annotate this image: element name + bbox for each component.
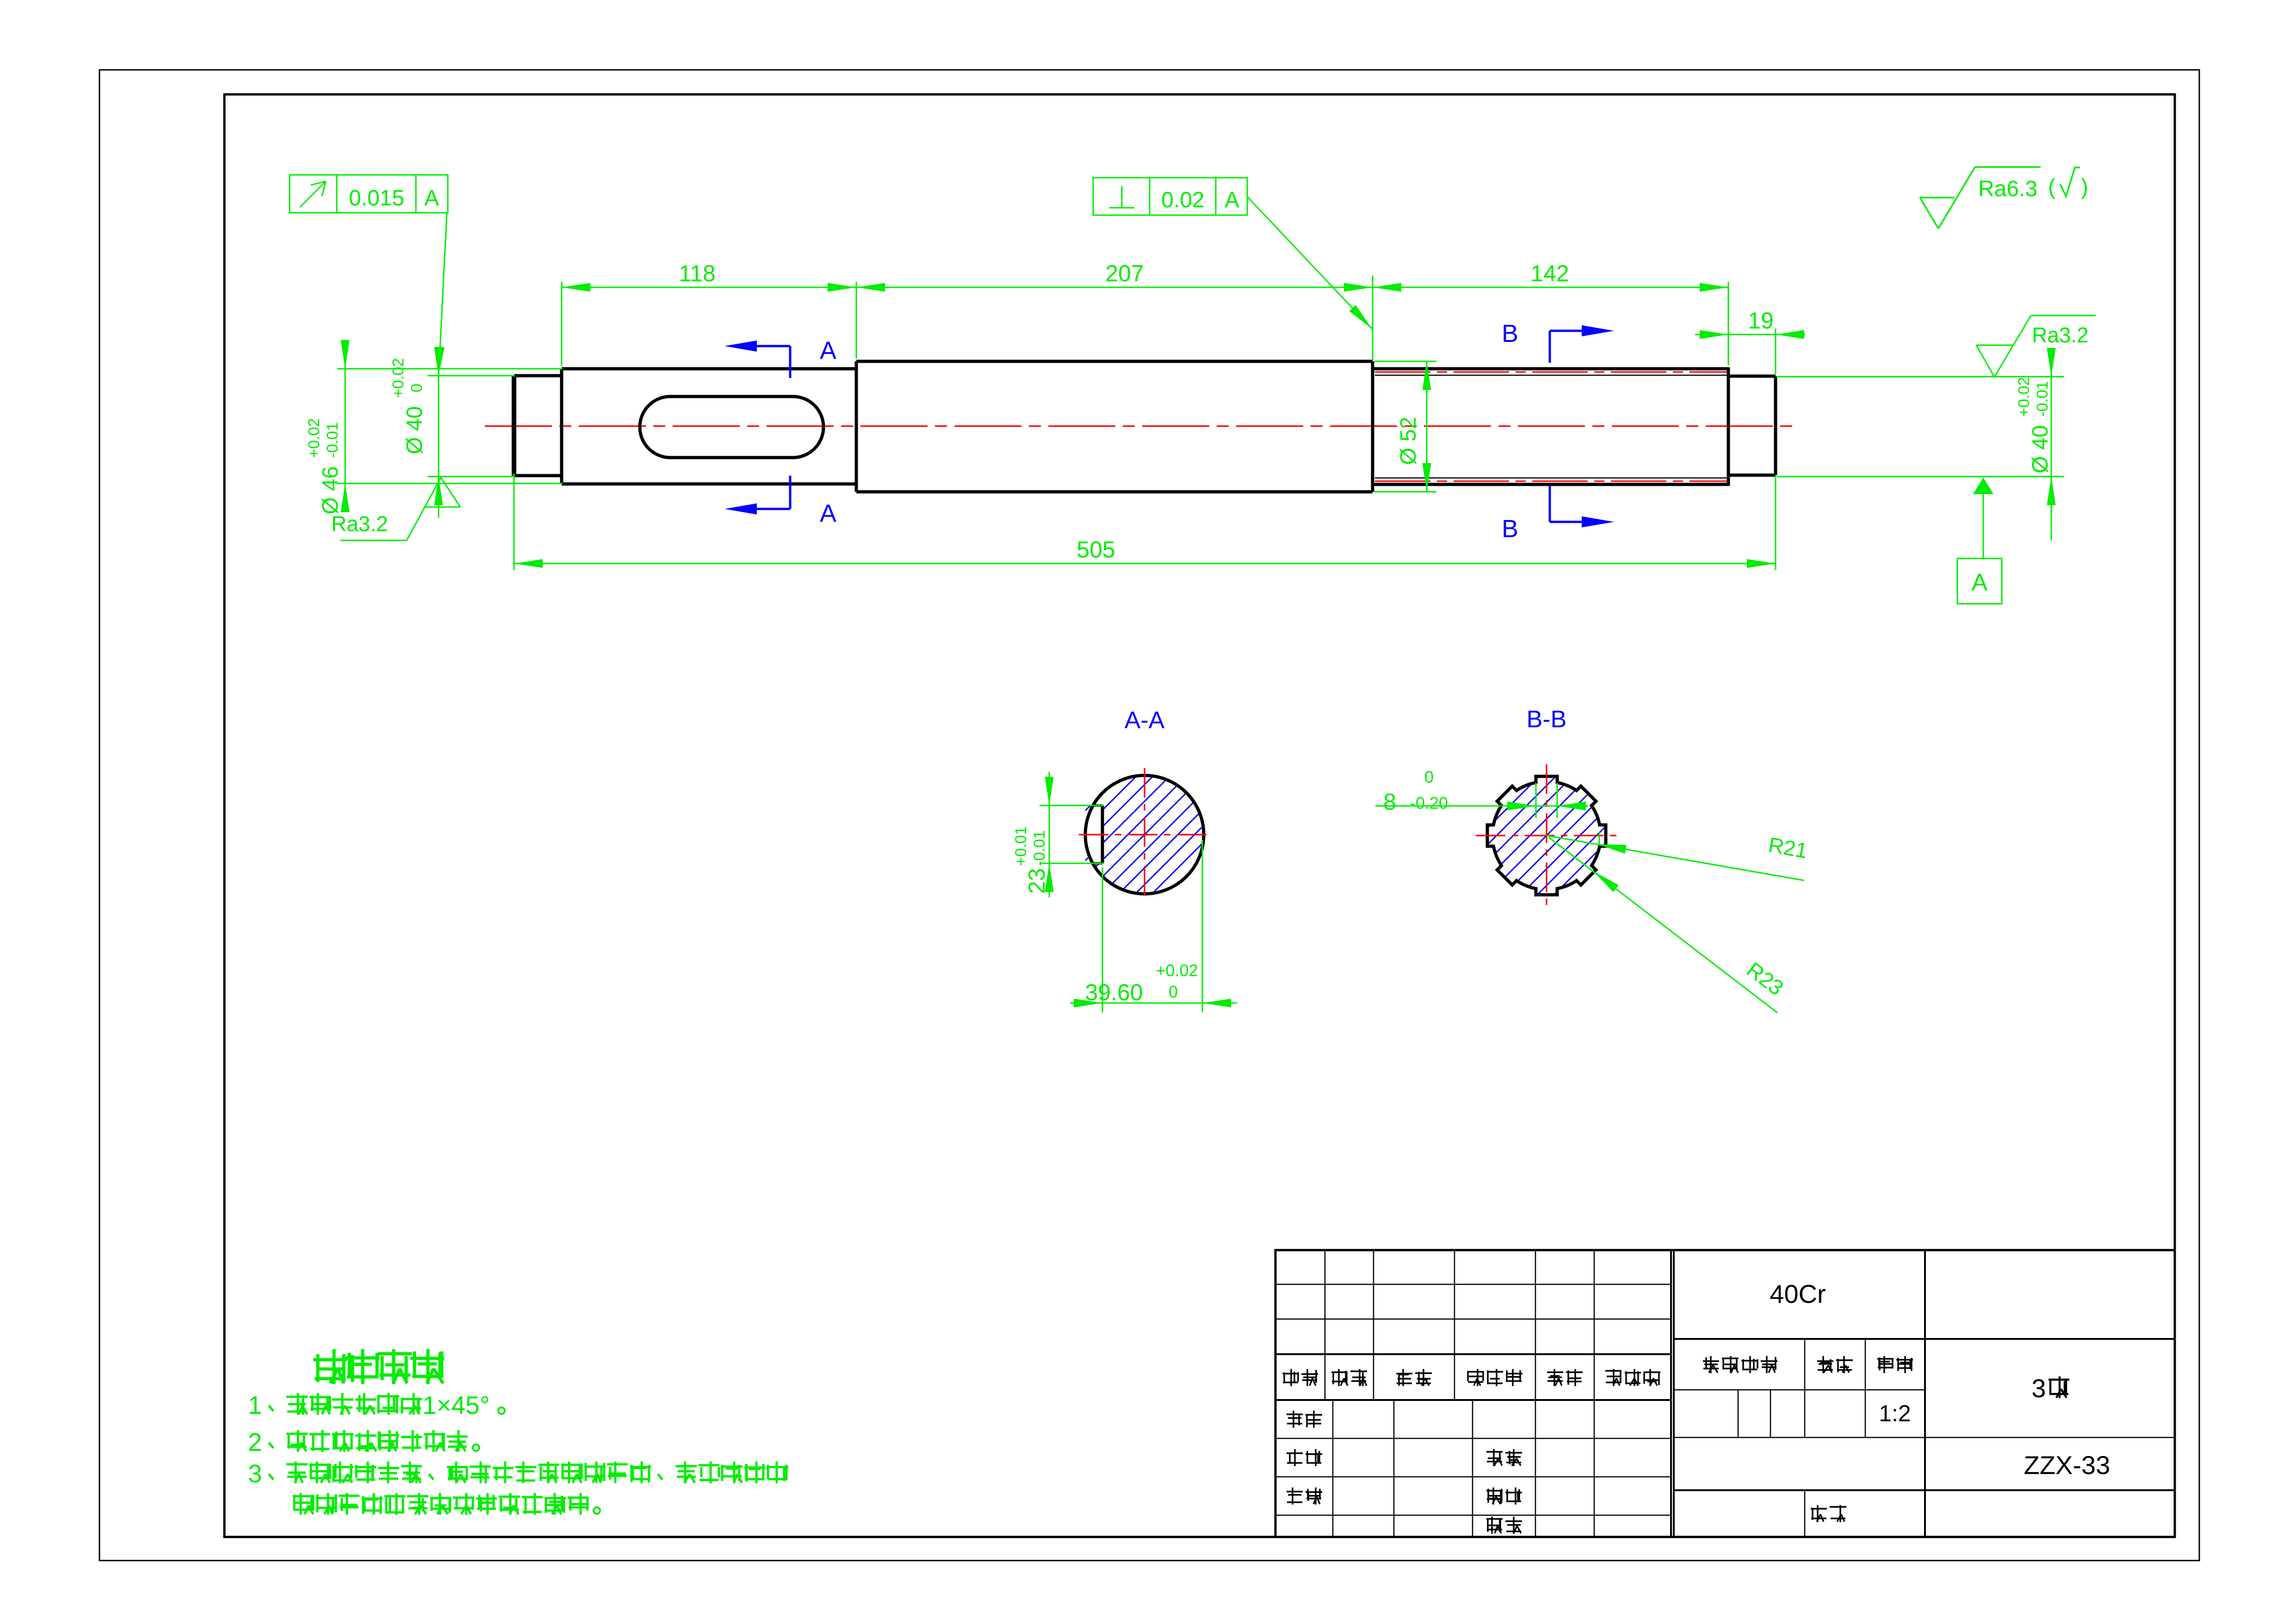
title block label 更改号: [1467, 1369, 1484, 1386]
svg-text:B-B: B-B: [1527, 706, 1567, 733]
radius leader R23: [1549, 837, 1788, 1013]
title block label 标记: [1282, 1369, 1299, 1386]
svg-text:Ø 46: Ø 46: [318, 466, 343, 514]
section mark A top: [724, 337, 836, 378]
feature control frame circular runout 0.015 A: [290, 175, 448, 213]
svg-text:23: 23: [1024, 868, 1050, 894]
svg-text:+0.02: +0.02: [390, 358, 407, 398]
svg-text:0.015: 0.015: [349, 186, 404, 211]
svg-text:A: A: [820, 337, 836, 365]
dimension 8 0/-0.20 (spline key width): [1375, 768, 1588, 818]
shaft Ø46 keyway section (118 long): [562, 369, 856, 484]
svg-text:0.02: 0.02: [1161, 188, 1204, 212]
svg-text:207: 207: [1105, 260, 1144, 286]
extension lines 505: [514, 474, 515, 570]
shaft left journal Ø40 (19 long): [514, 376, 562, 476]
svg-text:-0.20: -0.20: [1410, 793, 1448, 812]
svg-text:B: B: [1502, 515, 1518, 543]
section A-A crosshair centerlines: [1079, 768, 1210, 902]
section A-A circle outline: [1085, 775, 1204, 894]
leader from perpendicularity frame: [1247, 197, 1372, 329]
title block label 阶段标记: [1703, 1356, 1719, 1373]
svg-text:A: A: [820, 500, 836, 527]
dimension Ø46 +0.02/-0.01: [305, 340, 563, 514]
section B-B spline outline: [1487, 776, 1606, 895]
svg-text:1:2: 1:2: [1879, 1400, 1911, 1426]
svg-text:505: 505: [1077, 537, 1115, 563]
surface finish Ra3.2 left: [331, 477, 460, 540]
title block part name 3轴: [2031, 1374, 2069, 1403]
dimension 142: [1373, 260, 1728, 292]
svg-text:Ra6.3: Ra6.3: [1978, 177, 2037, 201]
title block label 工艺: [1486, 1449, 1503, 1466]
svg-text:0: 0: [1169, 982, 1178, 1001]
spline root red lines: [1375, 372, 1728, 373]
svg-text:ZZX-33: ZZX-33: [2024, 1450, 2110, 1480]
title block label 重量: [1817, 1356, 1833, 1373]
svg-text:A: A: [1972, 569, 1988, 596]
svg-text:19: 19: [1748, 308, 1774, 334]
leader from runout frame: [435, 213, 447, 373]
dimension Ø40 +0.02/0 (left journal): [390, 347, 515, 518]
section A-A keyway flat: [1092, 805, 1102, 863]
title block label 分区: [1396, 1369, 1412, 1386]
svg-text:0: 0: [1424, 768, 1434, 787]
svg-text:+0.02: +0.02: [305, 418, 323, 458]
svg-text:1×45°: 1×45°: [422, 1391, 490, 1419]
svg-text:-0.01: -0.01: [2034, 381, 2051, 417]
dimension 505: [514, 537, 1776, 568]
svg-text:Ø 52: Ø 52: [1396, 417, 1421, 465]
svg-text:2: 2: [248, 1428, 262, 1456]
svg-text:A: A: [1225, 188, 1239, 212]
surface finish Ra3.2 right: [1976, 316, 2096, 377]
feature control frame perpendicularity 0.02 A: [1093, 178, 1247, 215]
title block middle grid: [1674, 1250, 2175, 1537]
title block label 处数: [1331, 1369, 1348, 1386]
dimension 23 +0.01/-0.01 (keyway width): [1012, 772, 1104, 898]
technical requirement item 3 line 2: [293, 1493, 314, 1515]
svg-text:-0.01: -0.01: [1031, 830, 1048, 867]
dimension 19: [1695, 308, 1805, 339]
section mark A bottom: [724, 476, 836, 527]
title block label 校核: [1287, 1449, 1303, 1466]
title block label 比例: [1877, 1356, 1894, 1373]
svg-text:Ø 40: Ø 40: [402, 406, 427, 454]
title block label 签名: [1547, 1369, 1563, 1386]
svg-text:3: 3: [248, 1459, 262, 1488]
dimension 39.60 +0.02/0 (keyway depth): [1070, 840, 1237, 1012]
title block label 版本: [1811, 1505, 1827, 1522]
svg-text:39.60: 39.60: [1085, 979, 1143, 1005]
title block label 年月日: [1605, 1369, 1621, 1386]
title block change-record grid: [1275, 1250, 1674, 1537]
svg-text:3: 3: [2031, 1374, 2046, 1403]
keyway slot: [640, 396, 823, 458]
general surface note Ra6.3 (check) top-right: [1920, 167, 2088, 229]
title block label 批准: [1486, 1517, 1503, 1534]
shaft spline section (142 long): [1373, 361, 1728, 492]
svg-text:Ra3.2: Ra3.2: [2032, 323, 2089, 347]
svg-text:118: 118: [679, 260, 716, 286]
section B-B crosshair centerlines: [1476, 764, 1618, 908]
section mark B top: [1502, 320, 1614, 363]
dimension Ø52: [1374, 361, 1436, 492]
svg-text:40Cr: 40Cr: [1770, 1279, 1826, 1308]
inner border frame: [224, 94, 2175, 1537]
svg-text:(: (: [2048, 175, 2055, 199]
technical requirements title: [313, 1349, 347, 1384]
dimension 207: [856, 260, 1373, 292]
svg-text:+0.02: +0.02: [1156, 961, 1198, 980]
title block label 审核: [1486, 1487, 1503, 1505]
shaft Ø52 middle section (207 long): [856, 361, 1373, 492]
svg-text:Ra3.2: Ra3.2: [331, 512, 388, 536]
svg-text:0: 0: [408, 384, 426, 392]
shaft right journal Ø40 (19 long): [1728, 367, 1776, 486]
title block label 主管: [1287, 1487, 1303, 1505]
svg-text:B: B: [1502, 320, 1518, 347]
radius leader R21: [1547, 832, 1809, 880]
extension lines top dims: [562, 275, 1776, 374]
section mark B bottom: [1502, 486, 1614, 543]
svg-text:8: 8: [1383, 789, 1396, 815]
title block label 设计: [1287, 1411, 1303, 1428]
svg-text:Ø 40: Ø 40: [2028, 425, 2053, 473]
svg-text:A-A: A-A: [1125, 707, 1165, 734]
shaft centerline: [485, 425, 1795, 427]
svg-text:+0.01: +0.01: [1012, 826, 1030, 866]
datum A symbol: [1957, 477, 2002, 604]
svg-text:142: 142: [1530, 260, 1569, 286]
svg-text:): ): [2081, 175, 2088, 199]
svg-text:+0.02: +0.02: [2015, 377, 2033, 417]
svg-text:-0.01: -0.01: [324, 422, 341, 458]
dimension 118: [562, 260, 856, 292]
dimension Ø40 +0.02/-0.01 (right journal): [1776, 348, 2064, 540]
title block outline: [1275, 1250, 2175, 1537]
svg-text:1: 1: [248, 1391, 262, 1419]
svg-text:A: A: [424, 186, 439, 211]
